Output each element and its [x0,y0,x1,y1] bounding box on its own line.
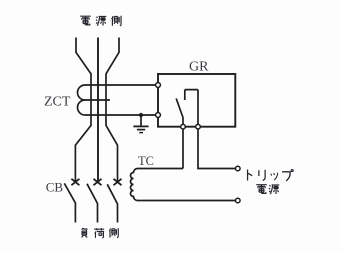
terminal trip supply lower [236,198,241,203]
ground (earth on ZCT secondary) [133,115,148,133]
wire GR contact right lead to trip supply [198,127,236,169]
terminal trip supply upper [236,166,241,171]
phase conductor L3 (right) [106,38,119,183]
label 電源側 (source side) [80,16,121,26]
svg-text:CB: CB [46,180,64,195]
label 電源 (trip source) [256,185,279,195]
svg-text:TC: TC [138,154,154,168]
terminal GR contact right [196,124,201,129]
breaker CB pole 2 blade and lower lead [87,184,98,223]
breaker CB pole 1 contact x [71,179,79,185]
breaker CB pole 1 blade and lower lead [64,183,75,222]
coil TC (trip coil) [131,169,141,201]
breaker CB pole 3 contact x [114,179,122,185]
phase conductor L1 (left) [75,38,91,183]
terminal GR secondary upper [156,83,161,88]
svg-text:ZCT: ZCT [44,95,71,110]
breaker CB pole 2 contact x [94,179,102,185]
breaker CB pole 3 blade and lower lead [107,184,117,222]
contact GR trip output (normally open) [176,90,198,127]
wire GR contact left lead to TC [182,127,184,169]
phase conductor L2 (middle) [97,38,99,183]
wire TC bottom (to trip supply) [140,200,236,202]
relay GR box [158,74,235,127]
svg-text:GR: GR [189,60,209,75]
wire TC top (to GR contact) [140,168,183,170]
ZCT winding lower turn and wire to GR lower terminal [78,100,157,115]
terminal GR contact left [181,124,186,129]
junction ground tap on ZCT secondary [139,113,143,117]
ZCT winding upper turn and wire to GR upper terminal [78,85,157,100]
label トリップ (trip) [248,169,294,180]
terminal GR secondary lower [156,113,161,118]
label 負荷側 (load side) [82,228,119,238]
